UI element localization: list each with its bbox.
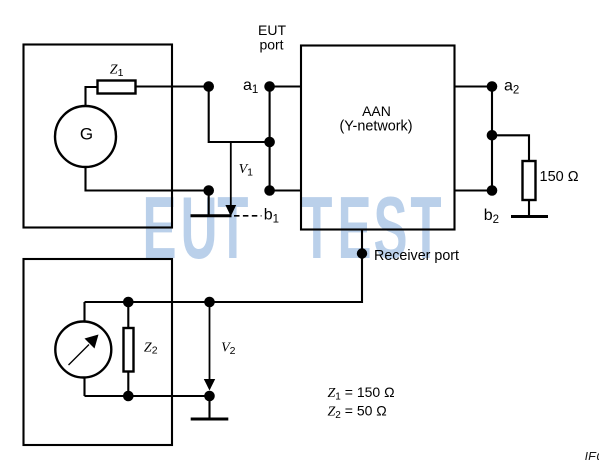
wire Z2 bottom stub (127, 372, 129, 397)
wire tap to load resistor (492, 135, 529, 161)
svg-text:EUT: EUT (258, 22, 286, 38)
watermark EUT TEST (142, 180, 441, 278)
svg-text:port: port (259, 37, 283, 53)
wire a1-b1 short (269, 87, 271, 191)
wire receiver port drop (85, 230, 363, 303)
svg-text:(Y-network): (Y-network) (339, 119, 412, 135)
wire a1 to AAN (270, 85, 301, 87)
wire a2-b2 short (491, 87, 493, 191)
generator enclosure box (24, 45, 173, 228)
wire junction drop to V1 tap (209, 87, 270, 143)
wire G bottom (86, 167, 209, 191)
node a2 dot (487, 81, 498, 92)
node dot tap right (487, 130, 498, 141)
wire b1 to AAN (270, 189, 301, 191)
node dot Z2 top (123, 297, 134, 308)
node receiver port dot (357, 248, 367, 258)
node dot junction top (203, 81, 214, 92)
AAN box U1 (301, 46, 455, 230)
resistor Z1 (98, 81, 136, 94)
node dot V2 top (204, 297, 215, 308)
wire ground stub bottom (208, 396, 210, 418)
node a1 dot (264, 81, 275, 92)
wire G top to Z1 (86, 87, 98, 107)
svg-text:AAN: AAN (362, 103, 391, 119)
wire ground stub left (208, 191, 210, 216)
node b2 dot (487, 185, 498, 196)
arrow V2 (204, 302, 215, 391)
node b1 dot (264, 185, 275, 196)
node dot mid tap (264, 137, 275, 148)
receiver enclosure box (24, 259, 173, 445)
node dot ground tap left (203, 185, 214, 196)
wire Z2 top stub (127, 302, 129, 328)
wire bottom rail (85, 395, 210, 397)
resistor Z2 (124, 328, 134, 372)
wire AAN to b2 (455, 189, 493, 191)
label EUT port (258, 22, 286, 53)
svg-text:T: T (217, 180, 248, 278)
arrow V1 (225, 142, 236, 216)
svg-text:IEC: IEC (585, 450, 599, 460)
wire Z1 to junction (136, 85, 209, 87)
svg-text:G: G (80, 125, 93, 144)
svg-text:150 Ω: 150 Ω (540, 169, 579, 185)
ground bar left (191, 214, 232, 217)
svg-text:Receiver port: Receiver port (374, 248, 459, 264)
wire meter bottom stub (83, 378, 85, 397)
resistor 150 ohm (523, 161, 536, 200)
meter needle (69, 335, 99, 366)
ground bar bottom (191, 418, 229, 421)
generator G circle (55, 106, 116, 167)
node dot Z2 bottom (123, 391, 134, 402)
wire resistor to ground (528, 200, 530, 216)
wire meter top stub (83, 302, 85, 322)
dashed leader to b1 (234, 215, 262, 217)
node dot V2 bottom (204, 391, 215, 402)
meter M1 circle (55, 322, 111, 378)
ground bar right (511, 215, 548, 218)
wire AAN to a2 (455, 85, 493, 87)
